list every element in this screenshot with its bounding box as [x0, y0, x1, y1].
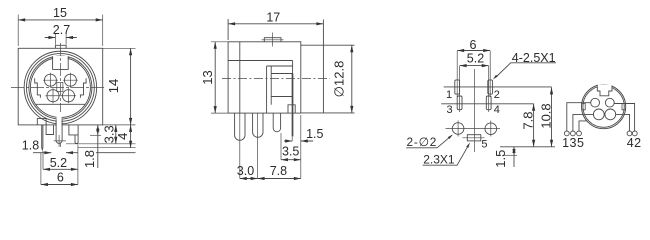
dimension 1.5 view2: [284, 140, 313, 142]
svg-text:2: 2: [494, 89, 500, 101]
view1 left step: [37, 119, 46, 125]
view1 ring circle 2: [29, 56, 92, 119]
view3 holes centerline: [446, 121, 501, 137]
view3 hole right: [485, 123, 497, 135]
view1 left pin leg: [42, 125, 43, 150]
dimension 10.8: [551, 87, 553, 146]
view1 insert circle: [30, 58, 90, 118]
dimension 3.3: [66, 143, 136, 145]
view2 barrel edge: [322, 20, 324, 113]
view3 pad3 bottom-left: [457, 96, 462, 110]
view1 shield tab tip tick: [54, 135, 66, 147]
view4 terminal 2: [632, 131, 637, 136]
view2 body block: [228, 42, 301, 113]
view1 right side notch: [80, 78, 86, 97]
svg-text:1.8: 1.8: [22, 139, 39, 153]
svg-text:1.5: 1.5: [493, 150, 508, 168]
view4 outer circle: [582, 85, 626, 129]
view2 centerline: [222, 78, 330, 80]
view1 horizontal centerline: [11, 87, 106, 89]
svg-text:10.8: 10.8: [539, 103, 554, 128]
view1 keyway slot: [53, 56, 69, 69]
svg-text:5: 5: [481, 138, 487, 150]
view3 line h87: [444, 86, 552, 88]
dimension 6 view3: [457, 51, 490, 97]
view2 internal line h66: [267, 65, 293, 67]
view2 pin D base: [288, 105, 295, 113]
svg-text:2-∅2: 2-∅2: [407, 135, 438, 149]
svg-text:2.3X1: 2.3X1: [423, 152, 455, 166]
svg-text:4: 4: [494, 104, 500, 116]
svg-text:5.2: 5.2: [50, 156, 67, 170]
view3 pad1 top-left: [455, 80, 460, 94]
view1 pin hole bottom-left: [47, 90, 59, 102]
svg-text:5.2: 5.2: [467, 52, 484, 66]
svg-text:15: 15: [53, 6, 67, 20]
view4 pin2 bottom-right: [605, 109, 616, 120]
svg-text:3.0: 3.0: [237, 164, 254, 178]
dimension 1.5 view3: [502, 154, 517, 156]
svg-text:13: 13: [200, 70, 215, 84]
view4 pin3 top-left: [591, 98, 600, 107]
svg-text:6: 6: [57, 171, 64, 185]
svg-text:2.7: 2.7: [53, 23, 70, 37]
svg-text:1.5: 1.5: [306, 127, 323, 141]
view4 wire 5: [579, 121, 587, 131]
view2 pin C: [273, 113, 280, 132]
view1 pin hole top-right: [64, 74, 76, 86]
svg-text:4: 4: [115, 133, 130, 140]
view3 shield slot centerline: [462, 137, 484, 139]
svg-text:6: 6: [470, 38, 477, 52]
view4 wire 3: [573, 114, 594, 130]
view4 terminal 1: [564, 131, 569, 136]
view1 vertical centerline: [59, 43, 61, 147]
view4 inner circle: [583, 86, 624, 127]
dimension 7.8 view2: [258, 178, 301, 180]
view3 vertical centerline: [474, 69, 476, 152]
svg-text:1.8: 1.8: [82, 150, 97, 168]
view4 wire 2: [614, 104, 634, 131]
view3 line h104: [441, 103, 534, 105]
svg-text:3: 3: [446, 104, 452, 116]
dimension 4: [78, 147, 136, 149]
view1 left block: [46, 125, 53, 135]
view3 bottom line: [500, 146, 555, 148]
view4 keyway slot: [597, 86, 612, 96]
dimension 5.2: [41, 145, 78, 185]
dimension 5.2 view3: [460, 66, 489, 112]
view4 terminal 4: [627, 131, 632, 136]
view4 pin1 bottom-left: [593, 109, 604, 120]
view1 pin hole top-left: [44, 74, 56, 86]
view4 terminal 5: [577, 131, 582, 136]
svg-text:∅12.8: ∅12.8: [331, 61, 346, 98]
view1 top tab 2.7: [55, 45, 66, 48]
view1 ring circle: [27, 54, 95, 122]
view2 internal line h96: [271, 96, 292, 98]
view1 left side notch: [35, 78, 41, 97]
view2 internal line h73: [271, 73, 292, 75]
view1 pin hole bottom-right: [62, 90, 74, 102]
view1 insert bottom chord: [36, 103, 85, 105]
dimension 15: [18, 15, 103, 47]
dimension 2.7: [55, 33, 66, 45]
view2 top tab cross: [262, 33, 284, 47]
svg-text:135: 135: [562, 136, 584, 150]
dimension 3.5: [280, 133, 282, 160]
view1 keyway mask: [53, 56, 68, 69]
view3 hole left: [452, 123, 464, 135]
dimension dia 12.8: [351, 45, 353, 113]
view4 pin4 top-right: [605, 98, 614, 107]
svg-text:14: 14: [106, 79, 121, 93]
svg-text:3.5: 3.5: [282, 145, 299, 159]
dimension 3.0: [240, 113, 258, 178]
view4 left side notch: [581, 103, 585, 109]
view3 pad2 top-right: [488, 80, 493, 94]
dimension 13: [211, 42, 228, 113]
view4 keyway mask: [598, 84, 612, 95]
dimension 1.8 right: [90, 134, 101, 136]
view4 wire 4: [616, 114, 630, 130]
view1 bottom shield tab mask: [57, 112, 62, 143]
dimension 14: [103, 48, 136, 125]
svg-text:7.8: 7.8: [270, 164, 287, 178]
view1 outer circle: [24, 51, 97, 124]
svg-text:17: 17: [266, 11, 280, 25]
view2 barrel: [301, 45, 355, 113]
view2 pin D thin: [292, 74, 294, 137]
view1 bottom shield tab: [56, 120, 62, 144]
svg-text:42: 42: [627, 136, 642, 150]
view3 pad4 bottom-right: [486, 96, 491, 110]
view2 internal line h60: [228, 60, 293, 62]
dimension 17: [228, 19, 323, 40]
view1 center shield hole: [57, 82, 63, 91]
view4 right side notch: [622, 103, 626, 109]
view4 terminal 3: [571, 131, 576, 136]
view1 right pin leg: [75, 135, 78, 144]
dimension 6: [41, 184, 78, 186]
dimension 7.8 view3: [533, 104, 535, 147]
view4 wire 1: [567, 103, 591, 131]
view3 shield slot: [467, 135, 481, 141]
view2 flange inner line: [239, 42, 241, 113]
view2 internal verticals: [267, 61, 293, 114]
svg-text:1: 1: [446, 89, 452, 101]
view2 pin A: [235, 113, 245, 140]
view1 right block: [69, 125, 78, 135]
svg-text:7.8: 7.8: [521, 112, 536, 130]
view1 body square: [18, 48, 103, 125]
view2 pin B: [253, 113, 263, 137]
view2 top tab: [264, 38, 281, 42]
